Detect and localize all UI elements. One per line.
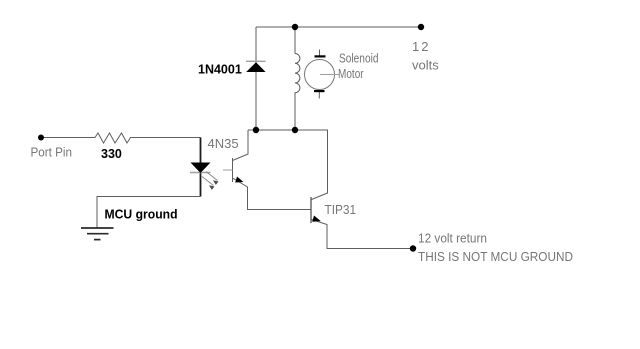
svg-text:Solenoid: Solenoid: [339, 51, 379, 66]
svg-text:330: 330: [101, 147, 122, 161]
svg-text:volts: volts: [412, 58, 439, 73]
svg-text:12: 12: [412, 39, 430, 54]
svg-text:MCU ground: MCU ground: [105, 208, 178, 222]
svg-text:12 volt return: 12 volt return: [418, 231, 487, 246]
svg-text:Motor: Motor: [338, 66, 364, 81]
svg-text:Port Pin: Port Pin: [31, 145, 73, 160]
svg-text:1N4001: 1N4001: [198, 63, 242, 77]
svg-text:THIS IS NOT MCU GROUND: THIS IS NOT MCU GROUND: [418, 249, 573, 264]
svg-text:TIP31: TIP31: [325, 202, 357, 217]
svg-text:4N35: 4N35: [208, 136, 239, 151]
